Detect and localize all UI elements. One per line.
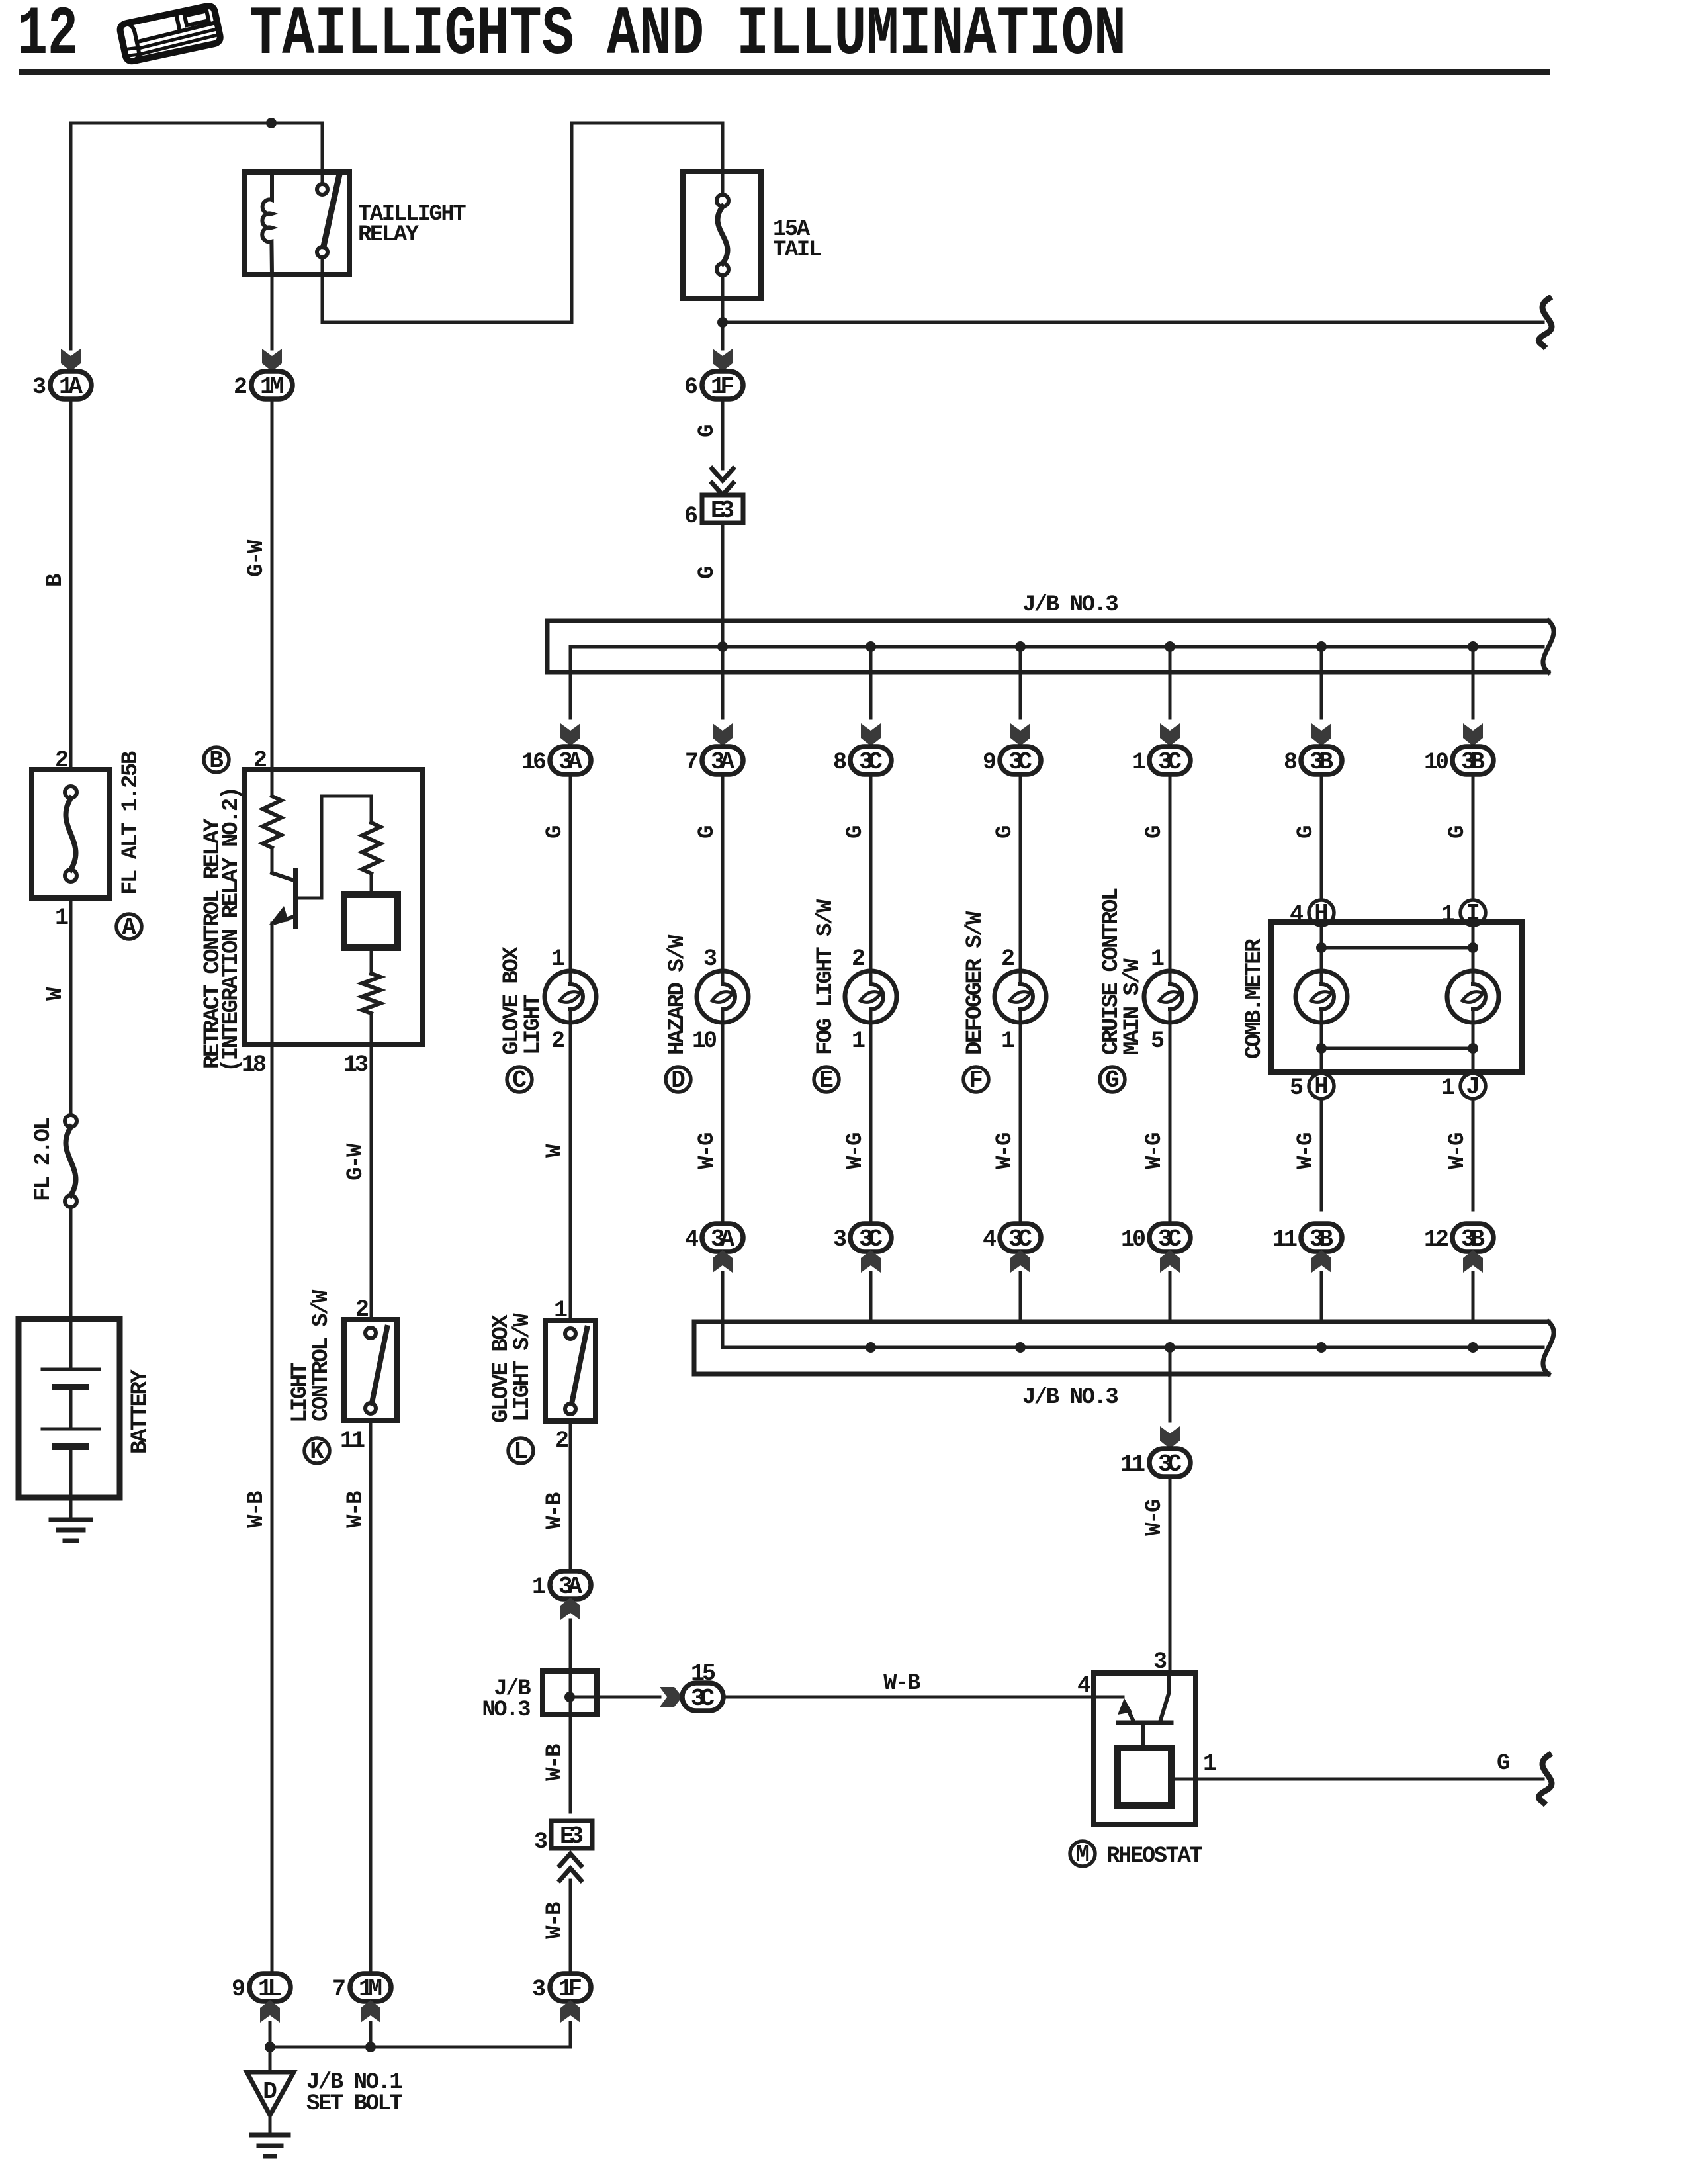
- wire col3 pin13 down: [370, 1044, 373, 1320]
- svg-text:1F: 1F: [711, 373, 734, 400]
- svg-text:G: G: [695, 567, 720, 579]
- wire emitter to pin 18: [271, 923, 274, 1044]
- illumination bulb x1542: [995, 971, 1046, 1023]
- wire comb meter right bottom: [1472, 1023, 1475, 1073]
- svg-text:3C: 3C: [1008, 1226, 1032, 1253]
- svg-text:1M: 1M: [260, 373, 284, 400]
- connector 3(3C): [850, 1224, 891, 1251]
- svg-text:W-B: W-B: [543, 1902, 568, 1939]
- svg-text:10: 10: [1121, 1226, 1145, 1253]
- svg-text:G: G: [1497, 1751, 1509, 1776]
- ground set bolt: [251, 2135, 289, 2156]
- connector 11(3B): [1301, 1224, 1342, 1251]
- svg-text:MAIN S/W: MAIN S/W: [1120, 958, 1145, 1055]
- svg-text:3A: 3A: [711, 1226, 734, 1253]
- svg-text:1: 1: [551, 946, 564, 972]
- fuse element 15A: [717, 195, 729, 275]
- connector 4(3A): [702, 1224, 743, 1251]
- svg-text:J/B NO.3: J/B NO.3: [1022, 1385, 1118, 1410]
- svg-text:3B: 3B: [1461, 749, 1485, 776]
- arrow up into 12(3B): [1463, 1250, 1483, 1273]
- svg-text:1F: 1F: [558, 1976, 582, 2003]
- svg-text:NO.3: NO.3: [482, 1698, 530, 1723]
- glove box switch contact lower: [565, 1404, 576, 1414]
- svg-text:4: 4: [983, 1226, 996, 1253]
- wire 3(3C) to lower bus: [869, 1273, 873, 1322]
- arrow into 1M: [262, 349, 282, 371]
- wire break right bottom: [1538, 1755, 1552, 1803]
- arrow into 1(3C): [1160, 723, 1180, 746]
- lower bus right break: [1543, 1322, 1554, 1374]
- svg-text:G: G: [1445, 826, 1470, 839]
- wire to ground bolt: [269, 2115, 272, 2134]
- connector 15(3C): [682, 1683, 723, 1711]
- light control switch box: [344, 1320, 397, 1420]
- junction dot in J/B box: [564, 1692, 575, 1702]
- svg-text:1: 1: [55, 905, 68, 931]
- dot comb meter top right: [1468, 942, 1478, 953]
- wire break right top: [1538, 298, 1552, 346]
- svg-text:3: 3: [534, 1829, 547, 1855]
- svg-text:W-B: W-B: [883, 1671, 920, 1696]
- resistor R1: [263, 796, 281, 848]
- wire relay output down: [321, 257, 324, 322]
- wire 12(3B) to lower bus: [1472, 1273, 1475, 1322]
- svg-text:F: F: [969, 1067, 983, 1094]
- svg-text:J: J: [1466, 1073, 1480, 1101]
- comb meter internal bottom wire: [1321, 1047, 1473, 1050]
- svg-text:3: 3: [32, 374, 46, 400]
- junction dot lower bus x1997: [1316, 1342, 1327, 1353]
- svg-text:W-B: W-B: [543, 1492, 568, 1529]
- svg-text:3C: 3C: [1158, 1226, 1182, 1253]
- wire to resistor R2: [370, 796, 373, 823]
- svg-text:1: 1: [1151, 946, 1164, 972]
- svg-text:3A: 3A: [711, 749, 734, 776]
- wire comb meter right top: [1472, 925, 1475, 971]
- wire 9(1L) down: [269, 2023, 272, 2072]
- svg-text:15: 15: [691, 1661, 715, 1687]
- wire col1 to battery: [69, 1207, 73, 1319]
- wire comb meter left top: [1320, 925, 1323, 971]
- svg-text:TAIL: TAIL: [773, 238, 821, 263]
- svg-text:SET BOLT: SET BOLT: [306, 2091, 402, 2116]
- svg-text:W-G: W-G: [993, 1133, 1018, 1169]
- wire col10 to 12(3B): [1472, 1099, 1475, 1210]
- wire W-B to rheostat: [723, 1696, 1123, 1699]
- arrow up into 11(3B): [1311, 1250, 1331, 1273]
- wire rheostat pin 1 to right: [1171, 1778, 1543, 1781]
- svg-text:G-W: G-W: [343, 1143, 369, 1181]
- wire col2 below relay: [271, 275, 274, 349]
- wire col10 bus to comb meter: [1472, 774, 1475, 900]
- wire 10(3B) down: [1472, 774, 1475, 971]
- svg-text:4: 4: [685, 1226, 698, 1253]
- arrow into 8(3C): [861, 723, 881, 746]
- wire 8(3C) down: [869, 774, 873, 971]
- wire col1 down to 1A: [69, 123, 73, 349]
- junction dot lower bus x1316: [866, 1342, 876, 1353]
- svg-text:G: G: [1294, 826, 1319, 839]
- svg-text:3C: 3C: [1158, 1451, 1182, 1478]
- rheostat element box: [1118, 1748, 1171, 1805]
- wire into resistor: [271, 770, 274, 796]
- double chevron below E3: [560, 1854, 581, 1880]
- resistor R3: [362, 974, 380, 1013]
- svg-text:12: 12: [1424, 1226, 1448, 1253]
- svg-text:D: D: [671, 1067, 686, 1094]
- circled L: [508, 1438, 533, 1463]
- arrow into 8(3B): [1311, 723, 1331, 746]
- comb meter internal top wire: [1321, 946, 1473, 950]
- svg-text:BATTERY: BATTERY: [128, 1369, 153, 1454]
- arrow into 1F: [713, 349, 733, 371]
- svg-text:LIGHT S/W: LIGHT S/W: [510, 1313, 535, 1422]
- svg-text:16: 16: [521, 749, 546, 776]
- circled B: [204, 747, 229, 772]
- connector 8(3B): [1301, 747, 1342, 774]
- svg-text:13: 13: [343, 1052, 368, 1078]
- light control contact lower: [365, 1403, 376, 1414]
- arrow up into 10(3C): [1160, 1250, 1180, 1273]
- connector 9(1L): [249, 1974, 290, 2001]
- junction dot bottom mid: [365, 2042, 376, 2052]
- svg-text:2: 2: [1001, 946, 1014, 972]
- wire into fuse: [721, 123, 725, 195]
- junction dot lower bus x2226: [1468, 1342, 1478, 1353]
- connector circle 5(H): [1309, 1073, 1334, 1099]
- wire col1 to FL ALT: [69, 399, 73, 770]
- svg-text:10: 10: [692, 1028, 716, 1054]
- svg-text:2: 2: [555, 1428, 568, 1454]
- svg-text:HAZARD S/W: HAZARD S/W: [665, 934, 690, 1055]
- arrow up into 4(3A): [713, 1250, 733, 1273]
- resistor R2: [362, 823, 380, 874]
- svg-text:DEFOGGER S/W: DEFOGGER S/W: [963, 911, 988, 1055]
- svg-text:8: 8: [833, 749, 846, 776]
- wire bulb x1542 down: [1019, 1023, 1022, 1224]
- svg-text:B: B: [209, 747, 224, 774]
- light control contact upper: [365, 1328, 376, 1338]
- wire bulb x862 down: [569, 1023, 572, 1320]
- wire E3 to 3(1F): [569, 1880, 572, 1974]
- svg-text:2: 2: [234, 374, 246, 400]
- wire 4(3A) to lower bus: [721, 1273, 725, 1322]
- arrow into 11(3C): [1160, 1426, 1180, 1449]
- svg-text:3C: 3C: [1008, 749, 1032, 776]
- wire resistor to transistor: [271, 848, 274, 873]
- svg-text:1A: 1A: [59, 373, 83, 400]
- svg-text:9: 9: [983, 749, 995, 776]
- svg-text:9: 9: [232, 1976, 244, 2003]
- connector 16(3A): [550, 747, 591, 774]
- svg-text:G: G: [1105, 1067, 1120, 1094]
- svg-text:G-W: G-W: [244, 539, 269, 577]
- junction dot top: [266, 118, 277, 128]
- fusible link FL 2.0L: [65, 1115, 77, 1207]
- svg-text:3: 3: [532, 1976, 545, 2003]
- connector 6(1F): [702, 371, 743, 399]
- title rule: [19, 69, 1550, 75]
- wire bus to connector x1092: [721, 647, 725, 718]
- wire box to R3: [370, 948, 373, 974]
- svg-text:(INTEGRATION RELAY NO.2): (INTEGRATION RELAY NO.2): [219, 788, 244, 1072]
- connector 7(1M): [350, 1974, 391, 2001]
- wire 4(3C) to lower bus: [1019, 1273, 1022, 1322]
- battery cells: [42, 1319, 99, 1498]
- wire bulb x1316 down: [869, 1023, 873, 1224]
- svg-text:3: 3: [1153, 1649, 1167, 1675]
- wire 7(3A) down: [721, 774, 725, 971]
- wire relay output to fuse: [322, 123, 723, 322]
- svg-text:W-G: W-G: [1445, 1133, 1470, 1169]
- arrow into 16(3A): [560, 723, 580, 746]
- comb meter bulb right: [1447, 971, 1499, 1023]
- wire 11(3C) to rheostat: [1169, 1477, 1172, 1673]
- J/B No.3 lower bus: [694, 1322, 1548, 1374]
- connector 1(3A): [550, 1571, 591, 1599]
- svg-text:3C: 3C: [859, 1226, 883, 1253]
- svg-text:1: 1: [532, 1574, 545, 1600]
- fuse 15A TAIL box: [683, 171, 761, 298]
- svg-text:W-B: W-B: [543, 1744, 568, 1781]
- circled A: [116, 914, 142, 939]
- connector 3(1A): [50, 371, 91, 399]
- svg-text:1M: 1M: [359, 1976, 382, 2003]
- fusible link element FL ALT: [65, 786, 77, 882]
- wire fuse output down: [721, 275, 725, 349]
- svg-text:RELAY: RELAY: [358, 222, 420, 248]
- wire through J/B box: [569, 1671, 572, 1715]
- wire bus to connector x1768: [1169, 647, 1172, 718]
- svg-text:G: G: [695, 826, 720, 839]
- junction dot upper bus x1997: [1316, 641, 1327, 652]
- wire 8(3B) down: [1320, 774, 1323, 971]
- svg-text:H: H: [1314, 1073, 1329, 1101]
- dot comb meter top left: [1316, 942, 1327, 953]
- wire battery to ground: [69, 1498, 73, 1518]
- wire 1(3C) down: [1169, 774, 1172, 971]
- connector 9(3C): [1000, 747, 1041, 774]
- arrow up into 4(3C): [1010, 1250, 1030, 1273]
- svg-text:LIGHT: LIGHT: [521, 994, 546, 1055]
- J/B No.3 upper bus: [547, 621, 1548, 672]
- arrow into 9(3C): [1010, 723, 1030, 746]
- lower bus internal wire: [723, 1346, 1543, 1349]
- svg-text:E3: E3: [560, 1823, 584, 1850]
- wire relay upper contact: [321, 123, 324, 184]
- svg-text:3B: 3B: [1461, 1226, 1485, 1253]
- wire battery feed top: [71, 122, 322, 125]
- svg-text:11: 11: [340, 1428, 365, 1454]
- wire col2 pin18 down: [271, 1044, 274, 1974]
- connector 12(3B): [1452, 1224, 1493, 1251]
- svg-text:A: A: [122, 914, 136, 941]
- svg-text:2: 2: [551, 1028, 564, 1054]
- svg-text:G: G: [1142, 826, 1167, 839]
- J/B No.3 junction box: [543, 1671, 597, 1715]
- arrow up into 3(3C): [861, 1250, 881, 1273]
- wire col9 to 11(3B): [1320, 1099, 1323, 1210]
- svg-text:5: 5: [1290, 1075, 1303, 1101]
- wire E3 to bus: [721, 523, 725, 718]
- svg-text:6: 6: [684, 503, 697, 529]
- svg-text:11: 11: [1272, 1226, 1297, 1253]
- rheostat internal transistor: [1118, 1673, 1171, 1748]
- relay contact upper: [317, 184, 328, 195]
- svg-text:G: G: [695, 425, 720, 437]
- svg-text:11: 11: [1120, 1451, 1145, 1478]
- circled F: [963, 1067, 989, 1092]
- wire comb meter left bottom: [1320, 1023, 1323, 1073]
- connector 2(1M): [251, 371, 292, 399]
- wire 10(3C) to lower bus: [1169, 1273, 1172, 1322]
- taillight relay box: [245, 172, 349, 275]
- glove box switch contact upper: [565, 1328, 576, 1339]
- wire 1F to E3: [721, 399, 725, 469]
- svg-text:3C: 3C: [691, 1685, 715, 1712]
- svg-text:8: 8: [1284, 749, 1297, 776]
- ground point 3(E3): [551, 1821, 592, 1848]
- relay coil: [262, 172, 272, 275]
- svg-text:W-G: W-G: [843, 1133, 868, 1169]
- junction dot fuse output: [717, 317, 728, 328]
- svg-text:J/B NO.3: J/B NO.3: [1022, 592, 1118, 617]
- svg-text:3B: 3B: [1310, 1226, 1333, 1253]
- junction dot upper bus x1768: [1165, 641, 1175, 652]
- relay switch blade: [324, 177, 339, 246]
- fusible link FL ALT 1.25B box: [32, 770, 110, 898]
- wire J/B box to 15(3C): [570, 1696, 660, 1699]
- arrow into 1A: [61, 349, 81, 371]
- transistor Q1: [269, 871, 296, 926]
- wire 9(3C) down: [1019, 774, 1022, 971]
- svg-text:CONTROL S/W: CONTROL S/W: [309, 1289, 334, 1422]
- svg-text:W-B: W-B: [343, 1491, 369, 1528]
- junction dot upper bus x1316: [866, 641, 876, 652]
- arrow up into 7(1M): [361, 2000, 380, 2023]
- circled M: [1070, 1841, 1095, 1866]
- svg-text:W-G: W-G: [695, 1133, 720, 1169]
- upper bus internal wire: [570, 645, 1543, 649]
- svg-text:1: 1: [1001, 1028, 1014, 1054]
- circled C: [507, 1067, 532, 1092]
- wire R3 to pin 13: [370, 1013, 373, 1044]
- wire to J/B No.3 box: [569, 1620, 572, 1671]
- circled E: [814, 1067, 839, 1092]
- wire 7(1M) down: [369, 2023, 373, 2047]
- component box in relay: [344, 895, 398, 948]
- connector circle 1(J): [1460, 1073, 1486, 1099]
- ground battery: [51, 1520, 91, 1541]
- svg-text:E3: E3: [711, 497, 734, 524]
- connector circle 4(H): [1309, 900, 1334, 925]
- svg-text:3: 3: [703, 946, 717, 972]
- dot comb meter bottom right: [1468, 1043, 1478, 1054]
- svg-text:FOG LIGHT S/W: FOG LIGHT S/W: [813, 899, 838, 1055]
- svg-text:B: B: [43, 574, 68, 587]
- svg-text:FL 2.OL: FL 2.OL: [31, 1118, 56, 1201]
- svg-text:G: G: [543, 826, 568, 839]
- svg-text:4: 4: [1077, 1672, 1090, 1699]
- svg-text:L: L: [513, 1438, 528, 1465]
- wire col2 to retract relay: [271, 399, 274, 770]
- wire bottom bus: [270, 2023, 570, 2047]
- svg-text:1: 1: [852, 1028, 865, 1054]
- svg-text:W: W: [543, 1144, 568, 1158]
- svg-text:W-B: W-B: [244, 1491, 269, 1528]
- wire R2 to component box: [370, 874, 373, 895]
- svg-text:12: 12: [17, 0, 78, 74]
- svg-text:6: 6: [684, 374, 697, 400]
- svg-text:W: W: [43, 987, 68, 1001]
- svg-text:FL ALT 1.25B: FL ALT 1.25B: [118, 751, 144, 895]
- connector 1(3C): [1149, 747, 1190, 774]
- connector 10(3B): [1452, 747, 1493, 774]
- svg-text:G: G: [993, 826, 1018, 839]
- rheostat box: [1094, 1673, 1196, 1825]
- battery box: [19, 1319, 120, 1498]
- svg-text:3C: 3C: [1158, 749, 1182, 776]
- svg-text:1: 1: [1203, 1751, 1216, 1777]
- svg-text:D: D: [263, 2078, 277, 2105]
- svg-text:G: G: [843, 826, 868, 839]
- svg-text:2: 2: [852, 946, 864, 972]
- set bolt triangle D: [247, 2072, 294, 2115]
- glove box light switch box: [545, 1320, 596, 1421]
- svg-text:K: K: [310, 1438, 324, 1465]
- arrow up into 9(1L): [260, 2000, 280, 2023]
- illumination bulb x862: [545, 971, 596, 1023]
- arrow up into 1(3A): [560, 1598, 580, 1620]
- svg-text:7: 7: [332, 1976, 345, 2003]
- svg-text:1L: 1L: [258, 1976, 282, 2003]
- wire 11(3B) to lower bus: [1320, 1273, 1323, 1322]
- wire col8 through lower bus: [1169, 1347, 1172, 1421]
- circled G: [1100, 1067, 1125, 1092]
- wire col3 down: [369, 1420, 373, 1974]
- wire bus to connector x1997: [1320, 647, 1323, 718]
- arrow into 7(3A): [713, 723, 733, 746]
- arrow into 10(3B): [1463, 723, 1483, 746]
- connector 10(3C): [1149, 1224, 1190, 1251]
- svg-text:COMB.METER: COMB.METER: [1242, 938, 1267, 1059]
- svg-text:1: 1: [1132, 749, 1145, 776]
- wire bus to connector x2226: [1472, 647, 1475, 718]
- circled K: [304, 1438, 330, 1463]
- wire bulb x1092 down: [721, 1023, 725, 1224]
- wire bus to connector x1316: [869, 647, 873, 718]
- connector 11(3C): [1149, 1449, 1190, 1477]
- light control switch blade: [372, 1328, 387, 1403]
- svg-text:W-G: W-G: [1142, 1133, 1167, 1169]
- ground point 6(E3): [702, 495, 743, 523]
- svg-text:C: C: [512, 1067, 527, 1094]
- wire tail feed to right: [723, 321, 1543, 324]
- connector 4(3C): [1000, 1224, 1041, 1251]
- circled D: [666, 1067, 691, 1092]
- arrow up into 3(1F): [560, 2000, 580, 2023]
- junction dot upper bus x1542: [1015, 641, 1026, 652]
- connector circle 1(I): [1460, 900, 1486, 925]
- wire bulb x1768 down: [1169, 1023, 1172, 1224]
- svg-text:W-G: W-G: [1294, 1133, 1319, 1169]
- wire col4 below J/B box: [569, 1715, 572, 1812]
- wire transistor base: [296, 796, 371, 898]
- connector 7(3A): [702, 747, 743, 774]
- double chevron to E3: [712, 469, 733, 495]
- svg-text:E: E: [819, 1067, 834, 1094]
